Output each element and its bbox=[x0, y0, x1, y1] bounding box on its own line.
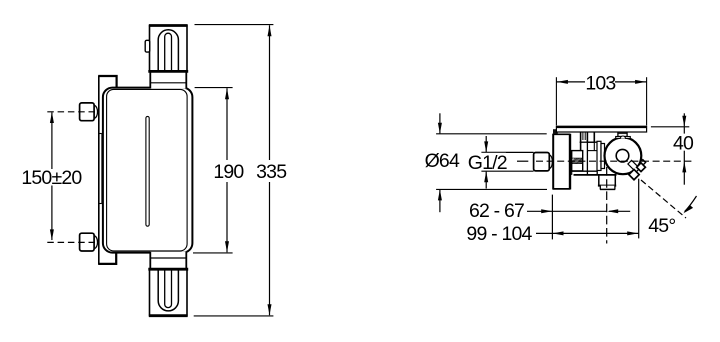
dimension text 190 bbox=[213, 161, 244, 183]
svg-text:335: 335 bbox=[256, 161, 287, 183]
dimension text 335 bbox=[256, 161, 287, 183]
dimension 335 line bbox=[268, 25, 272, 315]
knob hub (inner circle) bbox=[616, 149, 629, 162]
dimension 40 line with arrows bbox=[682, 113, 686, 184]
lower outlet lower block bbox=[600, 186, 615, 190]
45° reference dashed line bbox=[641, 180, 686, 218]
wall escutcheon plate Ø64 (edge view) bbox=[553, 134, 571, 190]
main centerline (dashed) bbox=[517, 160, 692, 162]
svg-text:45°: 45° bbox=[648, 215, 675, 237]
bracket top tab bbox=[98, 76, 116, 88]
45° arc arrow bbox=[683, 196, 696, 213]
dimension text 45° bbox=[648, 215, 675, 237]
62-67 right extension line (dashed) bbox=[606, 167, 608, 244]
svg-text:103: 103 bbox=[585, 72, 615, 94]
dimension 99-104 line bbox=[536, 231, 639, 235]
bottom handle grip slot (inner U) bbox=[165, 269, 172, 307]
angled outlet end cap bbox=[637, 163, 646, 172]
lower outlet upper block bbox=[574, 175, 617, 186]
dimension text 103 bbox=[585, 72, 615, 94]
wall bracket plate (left edge behind body) bbox=[99, 76, 102, 264]
top handle grip slot (inner U) bbox=[165, 33, 172, 71]
body outer shell bbox=[103, 88, 192, 253]
99-104 right extension line bbox=[638, 179, 640, 239]
svg-text:190: 190 bbox=[213, 161, 244, 183]
Ø64 dimension line with arrows bbox=[438, 113, 442, 212]
mounting bar end step bbox=[553, 129, 558, 134]
knob top tab bbox=[616, 132, 631, 138]
G1/2 dimension arrows bbox=[484, 136, 488, 189]
dimension 103 extension lines bbox=[556, 77, 646, 125]
svg-text:G1/2: G1/2 bbox=[468, 152, 507, 174]
supply union nut (side view) bbox=[534, 153, 553, 171]
dimension 62-67 line bbox=[527, 209, 630, 213]
top handle side button bbox=[145, 40, 150, 52]
svg-text:62 - 67: 62 - 67 bbox=[469, 200, 524, 222]
top handle cap bbox=[148, 26, 188, 72]
top mounting bar 103 (edge view) bbox=[556, 126, 646, 132]
dimension 40 extension line bbox=[651, 126, 689, 128]
dimension text 40 bbox=[671, 132, 695, 154]
inlet ledge below nipple bbox=[572, 171, 598, 175]
top supply union nut bbox=[80, 103, 98, 121]
body inner line bbox=[107, 89, 188, 251]
62-67 left extension line bbox=[551, 195, 553, 240]
dimension 103 line bbox=[556, 80, 646, 84]
angled shower outlet pipe bbox=[628, 160, 640, 172]
Ø64 extension lines bbox=[436, 134, 547, 190]
dimension text 150±20 bbox=[21, 167, 82, 189]
bottom supply union nut bbox=[80, 233, 98, 251]
bracket bottom tab bbox=[98, 253, 116, 264]
dimension text 62 - 67 bbox=[469, 200, 524, 222]
svg-text:150±20: 150±20 bbox=[21, 167, 82, 189]
dimension 335 extension lines bbox=[194, 25, 274, 316]
dimension text 99 - 104 bbox=[466, 223, 532, 245]
dimension text Ø64 bbox=[424, 150, 460, 172]
body front slot bbox=[146, 116, 149, 226]
bottom handle cap bbox=[148, 269, 188, 316]
top neck collar bbox=[150, 72, 186, 89]
bottom neck collar bbox=[150, 252, 186, 269]
dimension 150±20 line bbox=[50, 112, 54, 240]
svg-text:Ø64: Ø64 bbox=[425, 150, 460, 172]
body casting right block bbox=[587, 142, 597, 175]
G1/2 extension lines bbox=[481, 152, 533, 171]
threaded inlet nipple (section) bbox=[570, 151, 588, 171]
bar mounting posts with screw slot bbox=[580, 132, 596, 150]
top handle grip slot (outer U) bbox=[158, 30, 178, 72]
centerline top union (dashed) bbox=[47, 111, 98, 113]
centerline bottom union (dashed) bbox=[47, 241, 98, 243]
angled outlet lower elbow bbox=[629, 169, 639, 179]
bottom handle grip slot (outer U) bbox=[158, 269, 178, 311]
dimension text G1/2 bbox=[468, 152, 507, 174]
valve bonnet steps bbox=[597, 141, 605, 170]
svg-text:40: 40 bbox=[673, 132, 694, 154]
dimension 190 line bbox=[225, 88, 229, 252]
svg-text:99 - 104: 99 - 104 bbox=[466, 223, 532, 245]
dimension 190 extension lines bbox=[193, 88, 233, 253]
temperature knob (circle) bbox=[605, 137, 642, 174]
knob side lever tab bbox=[640, 160, 646, 166]
